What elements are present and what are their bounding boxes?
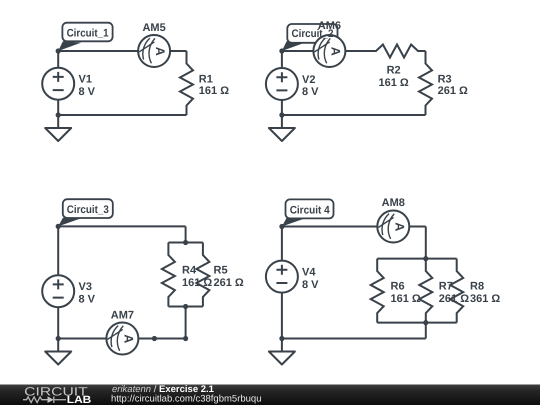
ammeter AM6 xyxy=(313,35,345,67)
svg-text:AM7: AM7 xyxy=(111,310,134,322)
svg-text:R7: R7 xyxy=(439,281,453,293)
svg-text:AM8: AM8 xyxy=(382,197,405,209)
label R7 value xyxy=(439,281,469,305)
svg-text:R6: R6 xyxy=(391,281,405,293)
svg-text:8 V: 8 V xyxy=(79,86,96,98)
wire bottom xyxy=(58,114,186,116)
wire bottom rail xyxy=(282,338,426,340)
label R8 value xyxy=(470,281,500,305)
svg-text:AM5: AM5 xyxy=(142,22,165,34)
junction dot bottom rail mid xyxy=(152,336,157,341)
wire top from node to parallel pair xyxy=(58,225,185,227)
wire bottom rail xyxy=(58,338,185,340)
wire top bar R6 R7 R8 xyxy=(377,258,457,260)
svg-text:161 Ω: 161 Ω xyxy=(182,277,212,289)
svg-text:LAB: LAB xyxy=(67,394,92,405)
label flag Circuit_2 box xyxy=(282,24,338,51)
junction dot top bar xyxy=(183,240,188,245)
svg-text:361 Ω: 361 Ω xyxy=(470,293,500,305)
voltage source V3 xyxy=(42,275,74,307)
wire top bar R4 R5 xyxy=(168,242,203,244)
svg-text:Circuit_1: Circuit_1 xyxy=(67,27,109,39)
resistor R7 xyxy=(419,259,432,323)
svg-text:R5: R5 xyxy=(214,265,228,277)
wire left V3 branch xyxy=(57,226,59,338)
svg-text:8 V: 8 V xyxy=(302,279,319,291)
ground circuit3 xyxy=(45,339,71,365)
label V1 value xyxy=(79,74,96,98)
svg-text:R4: R4 xyxy=(182,265,197,277)
wire from bottom bar to bottom rail xyxy=(425,323,427,339)
svg-text:261 Ω: 261 Ω xyxy=(439,293,469,305)
label R4 value xyxy=(182,265,212,289)
svg-text:V3: V3 xyxy=(79,281,92,293)
resistor R6 xyxy=(371,259,384,323)
node dot bottom-left circuit4 xyxy=(279,336,284,341)
resistor R2 xyxy=(346,45,426,58)
junction dot bottom rail right xyxy=(183,336,188,341)
ammeter AM7 xyxy=(106,323,138,355)
svg-text:V1: V1 xyxy=(79,74,92,86)
wire top from node to feed xyxy=(282,226,426,228)
svg-text:R1: R1 xyxy=(199,73,213,85)
label R5 value xyxy=(214,265,244,289)
wire bottom bar R6 R7 R8 xyxy=(377,322,457,324)
ammeter AM5 xyxy=(138,35,170,67)
wire bottom bar R4 R5 xyxy=(168,306,203,308)
node dot top-left circuit1 xyxy=(56,48,61,53)
wire left V4 branch xyxy=(281,227,283,339)
svg-text:Circuit_3: Circuit_3 xyxy=(67,204,109,216)
resistor R1 xyxy=(180,51,193,115)
label R1 value xyxy=(199,73,229,97)
svg-text:8 V: 8 V xyxy=(302,86,319,98)
ammeter AM8 xyxy=(377,211,409,243)
wire left V1 branch xyxy=(57,51,59,115)
node dot bottom-left circuit1 xyxy=(56,112,61,117)
node dot bottom circuit2 xyxy=(279,112,284,117)
svg-text:261 Ω: 261 Ω xyxy=(214,277,244,289)
svg-text:http://circuitlab.com/c38fgbm5: http://circuitlab.com/c38fgbm5rbuqu xyxy=(111,393,262,404)
node dot top-left circuit4 xyxy=(279,224,284,229)
svg-text:R8: R8 xyxy=(470,281,484,293)
ground circuit1 xyxy=(45,115,71,141)
label V4 value xyxy=(302,267,319,291)
svg-text:161 Ω: 161 Ω xyxy=(391,293,421,305)
svg-text:V4: V4 xyxy=(302,267,316,279)
svg-text:AM6: AM6 xyxy=(318,20,341,32)
wire top from node to R1 xyxy=(58,50,186,52)
wire bottom xyxy=(282,114,426,116)
node dot top-left circuit3 xyxy=(56,224,61,229)
svg-text:R2: R2 xyxy=(387,65,401,77)
label flag Circuit 4 xyxy=(282,199,334,226)
voltage source V4 xyxy=(266,261,298,293)
resistor R8 xyxy=(450,259,463,323)
wire from bottom bar to bottom rail xyxy=(185,307,187,339)
junction dot bottom bar xyxy=(183,304,188,309)
label R6 value xyxy=(391,281,421,305)
svg-text:161 Ω: 161 Ω xyxy=(378,77,408,89)
ground circuit4 xyxy=(269,339,295,365)
wire left V2 branch xyxy=(281,51,283,115)
label R3 value xyxy=(438,73,468,97)
voltage source V1 xyxy=(42,68,74,100)
resistor R3 xyxy=(419,51,432,115)
node dot top circuit2 xyxy=(279,48,284,53)
svg-text:R3: R3 xyxy=(438,73,452,85)
junction dot bottom bar c4 xyxy=(423,320,428,325)
label V3 value xyxy=(79,281,96,305)
svg-text:161 Ω: 161 Ω xyxy=(199,85,229,97)
resistor R4 xyxy=(162,243,175,307)
node dot bottom-left circuit3 xyxy=(56,336,61,341)
label flag Circuit_3 xyxy=(58,199,113,226)
wire top from node to R2 xyxy=(282,50,376,52)
ground circuit2 xyxy=(269,115,295,141)
voltage source V2 xyxy=(266,68,298,100)
resistor R5 xyxy=(196,243,209,307)
label R2 value xyxy=(378,65,408,89)
wire feed down to top bar xyxy=(185,226,187,242)
logo resistor-diode doodle xyxy=(23,396,66,403)
label flag Circuit_1 xyxy=(58,23,112,51)
svg-text:8 V: 8 V xyxy=(79,293,96,305)
wire feed down to top bar xyxy=(425,227,427,259)
junction dot top bar c4 xyxy=(423,256,428,261)
svg-text:261 Ω: 261 Ω xyxy=(438,85,468,97)
label V2 value xyxy=(302,74,319,98)
svg-text:V2: V2 xyxy=(302,74,315,86)
svg-text:Circuit 4: Circuit 4 xyxy=(290,204,331,216)
